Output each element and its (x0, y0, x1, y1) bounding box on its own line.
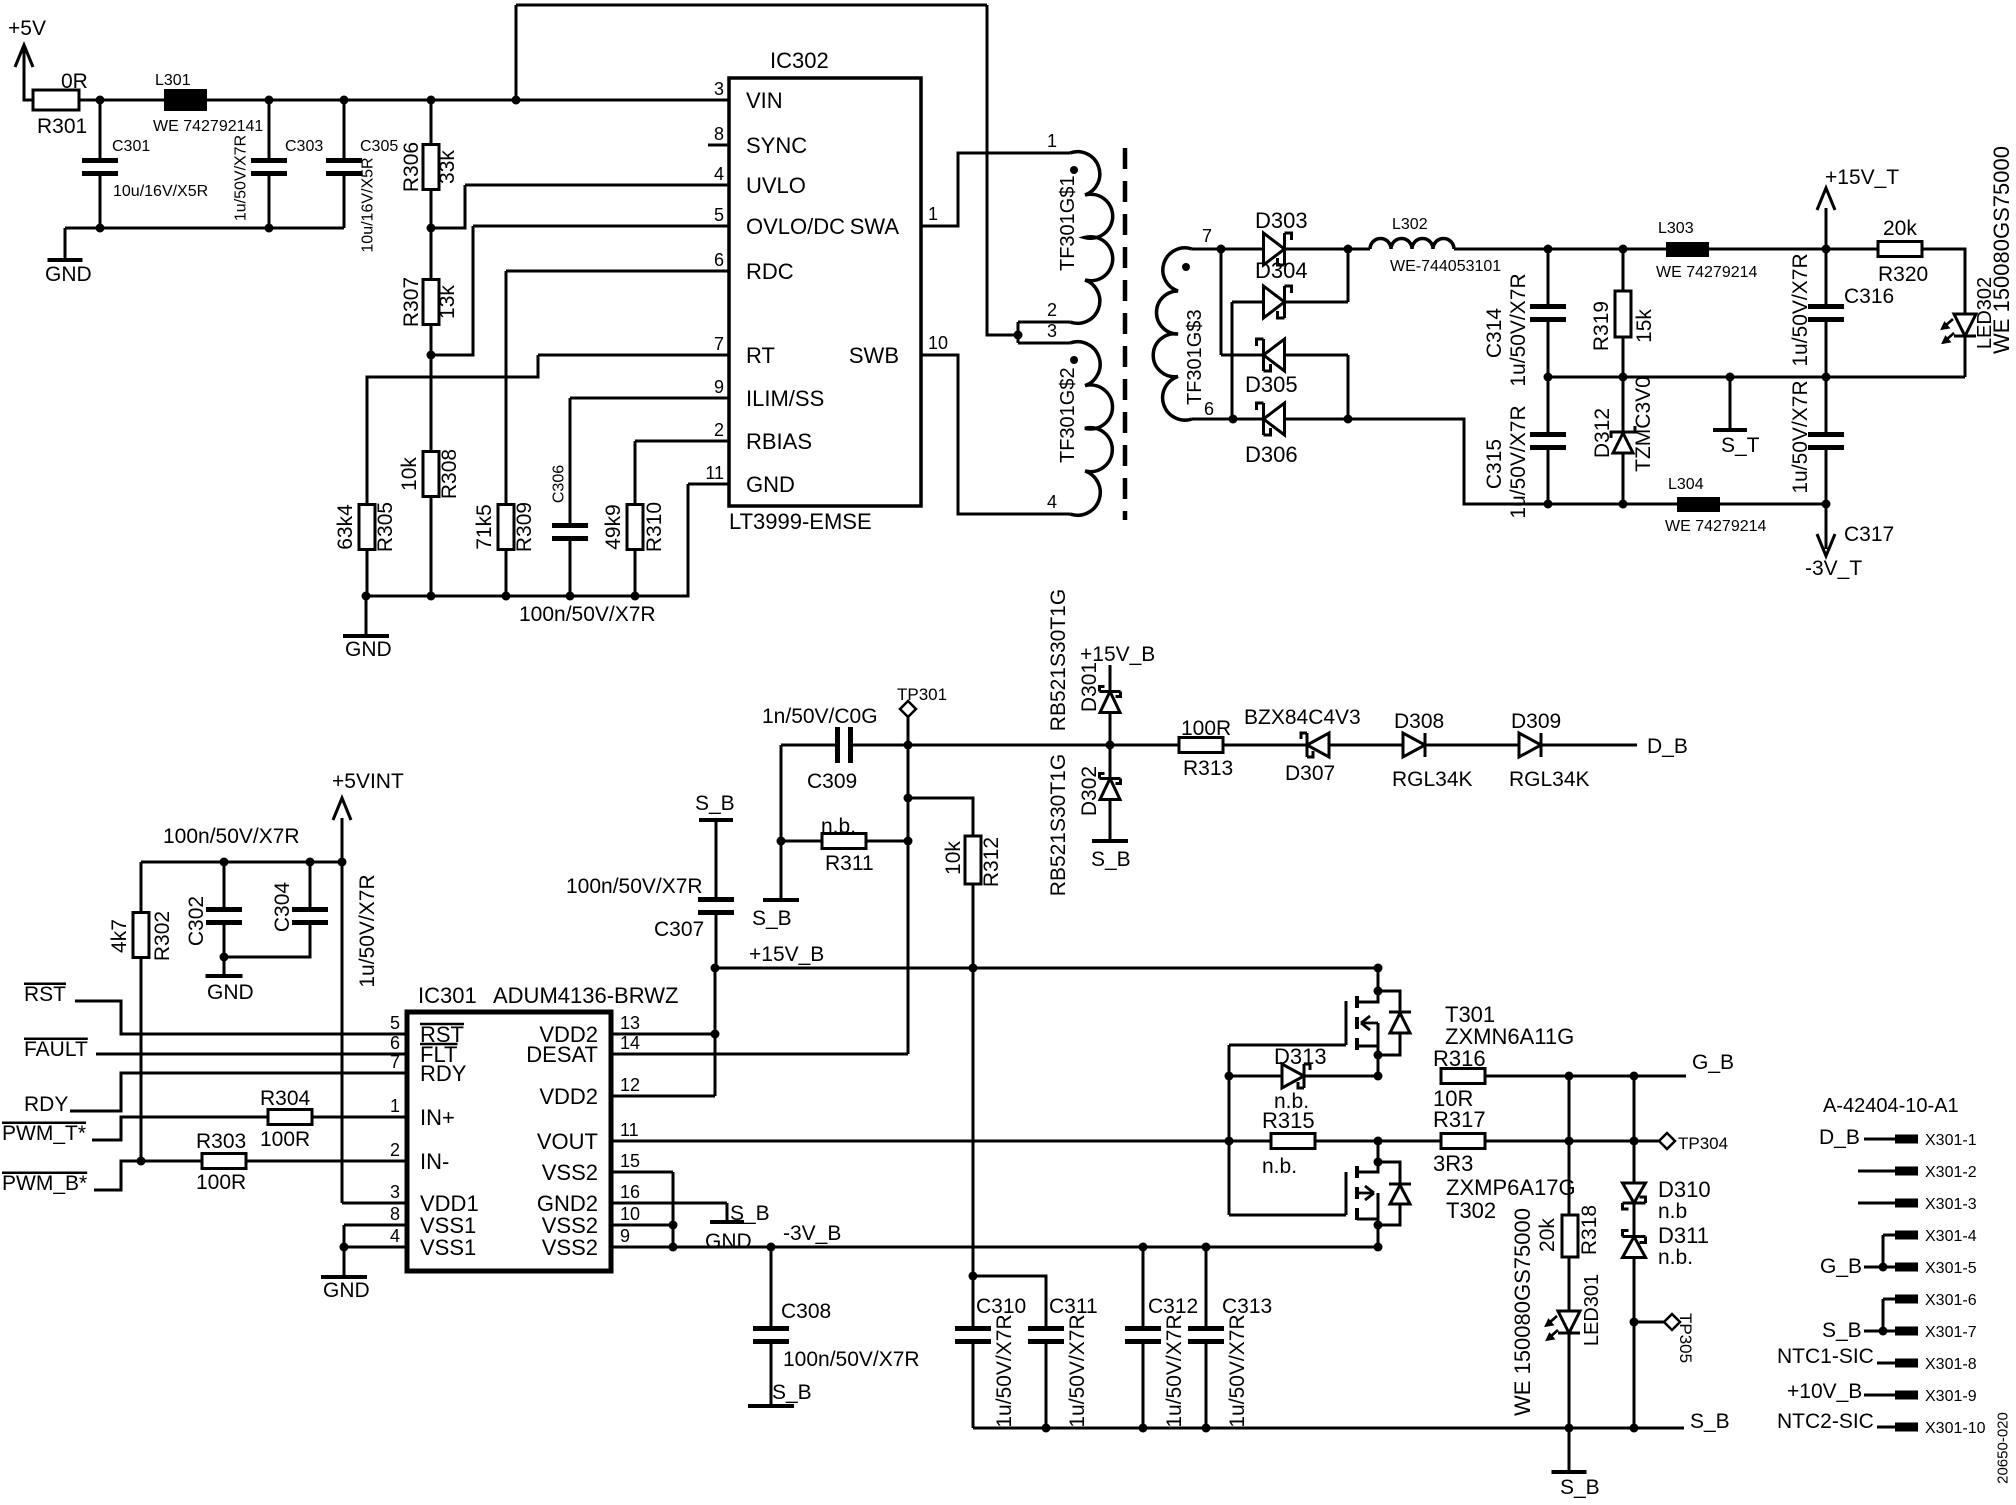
svg-text:3: 3 (714, 79, 724, 99)
svg-text:D307: D307 (1285, 762, 1335, 785)
svg-text:UVLO: UVLO (746, 173, 806, 198)
svg-text:1n/50V/C0G: 1n/50V/C0G (762, 705, 878, 728)
svg-text:TZMC3V0: TZMC3V0 (1632, 376, 1655, 472)
svg-text:RDC: RDC (746, 259, 794, 284)
svg-text:LT3999-EMSE: LT3999-EMSE (729, 509, 872, 534)
svg-text:1u/50V/X7R: 1u/50V/X7R (233, 135, 250, 221)
svg-text:100R: 100R (1181, 717, 1231, 740)
svg-text:L302: L302 (1392, 216, 1428, 233)
svg-text:S_B: S_B (695, 792, 735, 815)
svg-text:n.b.: n.b. (1658, 1246, 1693, 1269)
svg-text:VSS1: VSS1 (420, 1235, 476, 1260)
svg-text:NTC2-SIC: NTC2-SIC (1777, 1410, 1874, 1433)
svg-text:WE 150080GS75000: WE 150080GS75000 (1510, 1208, 1535, 1416)
svg-text:IN-: IN- (420, 1149, 449, 1174)
svg-text:D310: D310 (1658, 1177, 1711, 1202)
svg-text:100n/50V/X7R: 100n/50V/X7R (566, 875, 703, 898)
svg-text:C314: C314 (1483, 308, 1506, 359)
svg-text:+15V_T: +15V_T (1825, 166, 1899, 189)
svg-text:100n/50V/X7R: 100n/50V/X7R (783, 1348, 920, 1371)
svg-text:7: 7 (714, 334, 724, 354)
svg-text:PWM_T*: PWM_T* (2, 1122, 86, 1145)
svg-text:16: 16 (620, 1182, 640, 1202)
svg-text:C308: C308 (781, 1300, 831, 1323)
svg-text:10k: 10k (942, 841, 965, 875)
svg-text:R320: R320 (1878, 263, 1928, 286)
svg-text:IC301: IC301 (418, 983, 477, 1008)
svg-text:4: 4 (390, 1226, 400, 1246)
svg-text:+5VINT: +5VINT (332, 770, 404, 793)
svg-text:S_B: S_B (752, 907, 792, 930)
svg-text:X301-6: X301-6 (1925, 1292, 1977, 1309)
svg-text:-3V_T: -3V_T (1805, 557, 1862, 580)
svg-text:R310: R310 (643, 502, 666, 552)
svg-text:A-42404-10-A1: A-42404-10-A1 (1823, 1095, 1959, 1117)
svg-text:14: 14 (620, 1033, 640, 1053)
svg-text:X301-1: X301-1 (1925, 1132, 1977, 1149)
svg-text:X301-8: X301-8 (1925, 1356, 1977, 1373)
svg-text:D305: D305 (1245, 372, 1298, 397)
svg-text:1u/50V/X7R: 1u/50V/X7R (1066, 1314, 1089, 1427)
svg-text:VOUT: VOUT (537, 1129, 598, 1154)
svg-text:33k: 33k (436, 150, 459, 184)
svg-text:3: 3 (1047, 321, 1057, 341)
svg-text:1u/50V/X7R: 1u/50V/X7R (1226, 1314, 1249, 1427)
svg-text:C317: C317 (1844, 523, 1894, 546)
svg-text:TF301G$3: TF301G$3 (1184, 309, 1206, 405)
svg-text:C316: C316 (1844, 285, 1894, 308)
svg-text:R308: R308 (438, 449, 461, 499)
svg-text:7: 7 (390, 1052, 400, 1072)
svg-text:VIN: VIN (746, 88, 783, 113)
svg-text:C307: C307 (654, 918, 704, 941)
svg-text:DESAT: DESAT (526, 1042, 598, 1067)
svg-text:6: 6 (390, 1033, 400, 1053)
svg-text:TP304: TP304 (1678, 1134, 1728, 1153)
svg-text:BZX84C4V3: BZX84C4V3 (1244, 706, 1361, 729)
svg-text:R307: R307 (400, 277, 423, 327)
svg-text:RDY: RDY (24, 1093, 68, 1116)
svg-text:S_B: S_B (730, 1202, 770, 1225)
svg-text:R301: R301 (37, 115, 87, 138)
svg-text:11: 11 (705, 463, 724, 483)
svg-text:7: 7 (1202, 226, 1212, 246)
svg-text:X301-5: X301-5 (1925, 1260, 1977, 1277)
svg-text:SYNC: SYNC (746, 133, 807, 158)
svg-text:D313: D313 (1274, 1044, 1327, 1069)
svg-text:IC302: IC302 (770, 48, 829, 73)
svg-text:X301-3: X301-3 (1925, 1196, 1977, 1213)
svg-text:GND: GND (323, 1279, 370, 1302)
svg-text:ZXMP6A17G: ZXMP6A17G (1446, 1175, 1576, 1200)
svg-text:1u/50V/X7R: 1u/50V/X7R (1789, 253, 1812, 366)
svg-text:WE 74279214: WE 74279214 (1665, 518, 1767, 535)
svg-text:6: 6 (1204, 399, 1214, 419)
svg-text:R317: R317 (1433, 1107, 1486, 1132)
svg-text:R315: R315 (1262, 1108, 1315, 1133)
svg-text:9: 9 (620, 1226, 630, 1246)
svg-text:TP305: TP305 (1676, 1313, 1695, 1363)
svg-text:49k9: 49k9 (602, 504, 625, 550)
svg-text:D_B: D_B (1647, 735, 1688, 758)
svg-text:R312: R312 (980, 837, 1003, 887)
svg-text:L301: L301 (155, 72, 191, 89)
svg-text:100n/50V/X7R: 100n/50V/X7R (163, 825, 300, 848)
svg-text:1u/50V/X7R: 1u/50V/X7R (356, 874, 379, 987)
svg-text:C304: C304 (271, 882, 294, 933)
svg-text:10u/16V/X5R: 10u/16V/X5R (113, 183, 208, 200)
svg-text:X301-10: X301-10 (1925, 1420, 1986, 1437)
svg-text:C305: C305 (360, 138, 398, 155)
svg-text:WE 74279214: WE 74279214 (1656, 264, 1758, 281)
svg-text:R311: R311 (825, 852, 874, 875)
svg-text:GND: GND (45, 263, 92, 286)
svg-text:0R: 0R (61, 70, 88, 93)
svg-text:D303: D303 (1255, 208, 1308, 233)
svg-text:L303: L303 (1658, 220, 1694, 237)
svg-text:1u/50V/X7R: 1u/50V/X7R (1507, 405, 1530, 518)
svg-text:RT: RT (746, 343, 775, 368)
svg-text:FAULT: FAULT (24, 1038, 88, 1061)
svg-text:GND: GND (345, 638, 392, 661)
svg-text:100R: 100R (260, 1128, 310, 1151)
svg-text:R303: R303 (196, 1130, 246, 1153)
svg-text:100R: 100R (196, 1171, 246, 1194)
svg-text:2: 2 (390, 1140, 400, 1160)
svg-text:D302: D302 (1078, 766, 1101, 816)
svg-text:20650-020: 20650-020 (1995, 1412, 2012, 1484)
svg-text:TF301G$1: TF301G$1 (1057, 175, 1079, 271)
svg-text:4: 4 (714, 164, 724, 184)
svg-text:D304: D304 (1255, 258, 1308, 283)
svg-text:RGL34K: RGL34K (1509, 768, 1590, 791)
svg-text:ILIM/SS: ILIM/SS (746, 386, 824, 411)
svg-text:S_B: S_B (772, 1381, 812, 1404)
svg-text:n.b.: n.b. (1262, 1155, 1297, 1178)
svg-text:2: 2 (714, 420, 724, 440)
svg-text:PWM_B*: PWM_B* (2, 1172, 87, 1195)
svg-text:TP301: TP301 (897, 685, 947, 704)
svg-text:X301-9: X301-9 (1925, 1388, 1977, 1405)
svg-text:15k: 15k (1633, 309, 1656, 343)
svg-text:+5V: +5V (8, 17, 46, 40)
svg-text:IN+: IN+ (420, 1105, 455, 1130)
svg-text:5: 5 (390, 1013, 400, 1033)
svg-text:T302: T302 (1446, 1198, 1496, 1223)
svg-text:RDY: RDY (420, 1061, 467, 1086)
svg-text:C315: C315 (1483, 439, 1506, 489)
svg-text:3: 3 (390, 1182, 400, 1202)
svg-text:5: 5 (714, 205, 724, 225)
svg-text:1u/50V/X7R: 1u/50V/X7R (1507, 273, 1530, 386)
svg-text:VSS2: VSS2 (542, 1235, 598, 1260)
svg-text:G_B: G_B (1692, 1051, 1734, 1074)
svg-text:X301-2: X301-2 (1925, 1164, 1977, 1181)
svg-text:ADUM4136-BRWZ: ADUM4136-BRWZ (493, 983, 678, 1008)
svg-text:R306: R306 (400, 142, 423, 192)
svg-text:R302: R302 (151, 911, 174, 961)
svg-text:n.b: n.b (1658, 1200, 1687, 1223)
svg-text:10: 10 (620, 1204, 640, 1224)
svg-text:4k7: 4k7 (108, 919, 131, 953)
svg-text:10k: 10k (398, 457, 421, 491)
svg-text:C301: C301 (112, 138, 150, 155)
svg-text:10u/16V/X5R: 10u/16V/X5R (360, 157, 377, 252)
svg-text:9: 9 (714, 377, 724, 397)
svg-text:D309: D309 (1511, 710, 1561, 733)
svg-text:L304: L304 (1668, 476, 1704, 493)
svg-text:12: 12 (620, 1075, 640, 1095)
svg-text:+10V_B: +10V_B (1787, 1380, 1862, 1403)
svg-text:RGL34K: RGL34K (1392, 768, 1473, 791)
svg-text:1: 1 (1047, 131, 1057, 151)
svg-text:20k: 20k (1883, 217, 1917, 240)
svg-text:D311: D311 (1658, 1223, 1709, 1248)
svg-text:D308: D308 (1394, 710, 1444, 733)
svg-text:RST: RST (24, 983, 66, 1006)
svg-text:2: 2 (1047, 300, 1057, 320)
svg-text:1u/50V/X7R: 1u/50V/X7R (993, 1314, 1016, 1427)
svg-text:20k: 20k (1536, 1218, 1559, 1252)
svg-text:8: 8 (714, 124, 724, 144)
svg-text:G_B: G_B (1820, 1255, 1862, 1278)
svg-text:NTC1-SIC: NTC1-SIC (1777, 1345, 1874, 1368)
svg-text:R318: R318 (1578, 1205, 1601, 1255)
svg-text:VDD2: VDD2 (539, 1084, 598, 1109)
svg-text:13k: 13k (436, 285, 459, 319)
svg-text:D301: D301 (1078, 662, 1101, 712)
svg-text:3R3: 3R3 (1433, 1151, 1473, 1176)
svg-text:SWB: SWB (849, 343, 899, 368)
svg-text:100n/50V/X7R: 100n/50V/X7R (519, 603, 656, 626)
svg-text:WE-744053101: WE-744053101 (1390, 258, 1501, 275)
svg-text:R319: R319 (1590, 301, 1613, 351)
svg-text:WE 150080GS75000: WE 150080GS75000 (1989, 146, 2014, 354)
svg-text:RBIAS: RBIAS (746, 429, 812, 454)
svg-text:GND: GND (746, 472, 795, 497)
svg-text:1: 1 (928, 204, 938, 224)
svg-text:11: 11 (620, 1120, 639, 1140)
svg-text:VSS2: VSS2 (542, 1160, 598, 1185)
svg-text:C303: C303 (285, 138, 323, 155)
svg-text:8: 8 (390, 1204, 400, 1224)
svg-text:X301-7: X301-7 (1925, 1324, 1977, 1341)
svg-text:63k4: 63k4 (334, 504, 357, 550)
svg-text:+15V_B: +15V_B (749, 943, 824, 966)
svg-text:R313: R313 (1183, 757, 1233, 780)
svg-text:D312: D312 (1591, 408, 1614, 458)
svg-text:S_B: S_B (1690, 1410, 1730, 1433)
svg-text:X301-4: X301-4 (1925, 1228, 1977, 1245)
svg-text:D306: D306 (1245, 442, 1298, 467)
svg-text:71k5: 71k5 (473, 504, 496, 550)
svg-text:WE 742792141: WE 742792141 (153, 118, 263, 135)
svg-text:S_T: S_T (1721, 434, 1760, 457)
svg-text:GND: GND (207, 981, 254, 1004)
svg-text:D_B: D_B (1819, 1126, 1860, 1149)
svg-text:6: 6 (714, 250, 724, 270)
svg-text:4: 4 (1047, 492, 1057, 512)
svg-text:SWA: SWA (850, 214, 900, 239)
svg-text:1u/50V/X7R: 1u/50V/X7R (1789, 380, 1812, 493)
svg-text:C309: C309 (807, 770, 857, 793)
svg-text:n.b.: n.b. (821, 815, 856, 838)
svg-text:13: 13 (620, 1013, 640, 1033)
svg-text:1: 1 (390, 1096, 400, 1116)
svg-text:TF301G$2: TF301G$2 (1057, 367, 1079, 463)
svg-text:R305: R305 (374, 502, 397, 552)
svg-text:R316: R316 (1433, 1046, 1486, 1071)
svg-text:RB521S30T1G: RB521S30T1G (1047, 589, 1070, 731)
svg-text:R304: R304 (260, 1087, 311, 1110)
svg-text:S_B: S_B (1822, 1319, 1862, 1342)
svg-text:GND: GND (705, 1230, 752, 1253)
svg-text:C306: C306 (551, 465, 568, 503)
svg-text:RB521S30T1G: RB521S30T1G (1047, 754, 1070, 896)
svg-text:LED301: LED301 (1581, 1274, 1603, 1346)
svg-text:OVLO/DC: OVLO/DC (746, 214, 845, 239)
svg-text:S_B: S_B (1091, 848, 1131, 871)
svg-text:1u/50V/X7R: 1u/50V/X7R (1163, 1314, 1186, 1427)
svg-text:R309: R309 (513, 502, 536, 552)
svg-text:15: 15 (620, 1151, 640, 1171)
svg-text:S_B: S_B (1560, 1476, 1600, 1499)
svg-text:C302: C302 (185, 896, 208, 946)
svg-text:-3V_B: -3V_B (783, 1222, 841, 1245)
svg-text:10: 10 (928, 333, 948, 353)
